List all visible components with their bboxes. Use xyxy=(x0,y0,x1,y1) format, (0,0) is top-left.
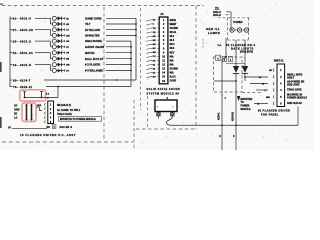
svg-text:SYSTEM MODULE #A: SYSTEM MODULE #A xyxy=(147,92,180,95)
svg-text:# 3 WILLIAMS: # 3 WILLIAMS xyxy=(85,69,103,73)
svg-text:3B: 3B xyxy=(14,113,17,116)
svg-text:NO: NO xyxy=(269,70,273,72)
svg-text:TRIAC GATE: TRIAC GATE xyxy=(287,88,302,91)
svg-text:SHOOT AGAIN: SHOOT AGAIN xyxy=(85,45,104,49)
svg-text:J4: J4 xyxy=(160,12,164,16)
svg-text:5M (A6J1-7): 5M (A6J1-7) xyxy=(57,104,71,107)
svg-text:SOUND: SOUND xyxy=(170,69,179,71)
svg-text:N/A: N/A xyxy=(170,55,174,58)
svg-text:N/A: N/A xyxy=(170,59,174,62)
svg-text:TRIAC DATA: TRIAC DATA xyxy=(57,113,72,116)
svg-text:5M1T-J1: 5M1T-J1 xyxy=(274,60,284,63)
svg-text:8N: 8N xyxy=(153,44,156,46)
svg-text:4R: 4R xyxy=(66,23,69,26)
svg-text:7R: 7R xyxy=(66,53,69,55)
svg-text:NO: NO xyxy=(47,127,51,129)
svg-text:90– 42J4-7: 90– 42J4-7 xyxy=(13,78,31,82)
svg-text:18– 43J1-2: 18– 43J1-2 xyxy=(13,39,32,43)
svg-text:N6.1: N6.1 xyxy=(170,44,176,46)
svg-text:HI YELLOW: HI YELLOW xyxy=(85,28,100,32)
svg-text:91– 43J1-3: 91– 43J1-3 xyxy=(13,17,32,21)
svg-text:#2 FLASHER DR-4: #2 FLASHER DR-4 xyxy=(226,43,255,47)
svg-text:38.4: 38.4 xyxy=(170,39,175,42)
svg-text:3U: 3U xyxy=(153,77,156,79)
svg-text:BALL IN PLAY: BALL IN PLAY xyxy=(85,57,103,61)
svg-text:ORG: ORG xyxy=(14,109,20,112)
svg-text:19– 43J1-8: 19– 43J1-8 xyxy=(13,63,32,67)
svg-text:9LAC: 9LAC xyxy=(170,76,176,79)
svg-text:LAMPS: LAMPS xyxy=(208,31,220,35)
svg-text:13 FLASHER DRIVER P.C. ASSY: 13 FLASHER DRIVER P.C. ASSY xyxy=(20,133,76,137)
svg-text:SOLID STATE SOUND: SOLID STATE SOUND xyxy=(147,88,181,91)
svg-text:42J4-1: 42J4-1 xyxy=(218,112,221,120)
svg-text:3G: 3G xyxy=(66,41,69,43)
svg-text:# 2 PLAYER: # 2 PLAYER xyxy=(85,63,100,67)
svg-text:4N: 4N xyxy=(153,35,156,38)
svg-text:42J1-8: 42J1-8 xyxy=(213,14,221,17)
svg-text:9U: 9U xyxy=(153,48,156,50)
svg-text:8B: 8B xyxy=(66,59,69,61)
svg-text:NU: NU xyxy=(153,52,157,54)
svg-text:FOR PANEL: FOR PANEL xyxy=(261,113,279,116)
svg-text:TURNED: TURNED xyxy=(233,22,243,24)
svg-text:79– 42J8-11: 79– 42J8-11 xyxy=(13,85,32,89)
svg-text:TILT: TILT xyxy=(85,22,91,26)
svg-text:POWER: POWER xyxy=(241,106,250,108)
svg-text:1N: 1N xyxy=(153,32,156,34)
svg-text:42J4-10: 42J4-10 xyxy=(232,112,235,121)
svg-text:SEN LIGHT: SEN LIGHT xyxy=(287,83,300,86)
svg-text:MATCH: MATCH xyxy=(85,51,95,55)
svg-text:7N: 7N xyxy=(153,28,156,30)
svg-text:7U: 7U xyxy=(153,56,156,58)
svg-text:10– 43J1-31: 10– 43J1-31 xyxy=(13,51,34,55)
svg-text:HIGH SCORE: HIGH SCORE xyxy=(85,39,102,43)
svg-text:N/A: N/A xyxy=(170,72,174,75)
svg-text:GAME OVER: GAME OVER xyxy=(85,16,101,20)
svg-text:GND 42J4-10: GND 42J4-10 xyxy=(287,102,302,105)
svg-text:38.6: 38.6 xyxy=(170,48,175,50)
svg-text:MEM7: MEM7 xyxy=(170,24,177,26)
svg-text:(PA1) (D2V): (PA1) (D2V) xyxy=(240,51,253,54)
svg-text:DIC-B: DIC-B xyxy=(170,32,177,34)
svg-text:GY: GY xyxy=(14,105,18,108)
svg-text:MOUNTED TO POWER MODULE: MOUNTED TO POWER MODULE xyxy=(60,119,96,121)
svg-text:GM41: GM41 xyxy=(170,19,177,22)
svg-text:SAC AB -9: SAC AB -9 xyxy=(60,126,73,129)
svg-text:TO: TO xyxy=(241,102,244,104)
svg-text:MOUNTED: MOUNTED xyxy=(241,99,253,101)
svg-text:(1): (1) xyxy=(8,127,11,129)
svg-text:KEY: KEY xyxy=(170,52,175,54)
svg-text:MODULE: MODULE xyxy=(241,109,252,111)
svg-text:HI WALTER: HI WALTER xyxy=(85,34,100,38)
svg-text:38.2: 38.2 xyxy=(170,36,175,38)
svg-text:POWER MODULE: POWER MODULE xyxy=(287,97,307,100)
svg-text:N/A: N/A xyxy=(170,63,174,66)
svg-text:ASM 7: ASM 7 xyxy=(287,77,295,80)
svg-text:97– 43J1-29: 97– 43J1-29 xyxy=(13,28,34,32)
